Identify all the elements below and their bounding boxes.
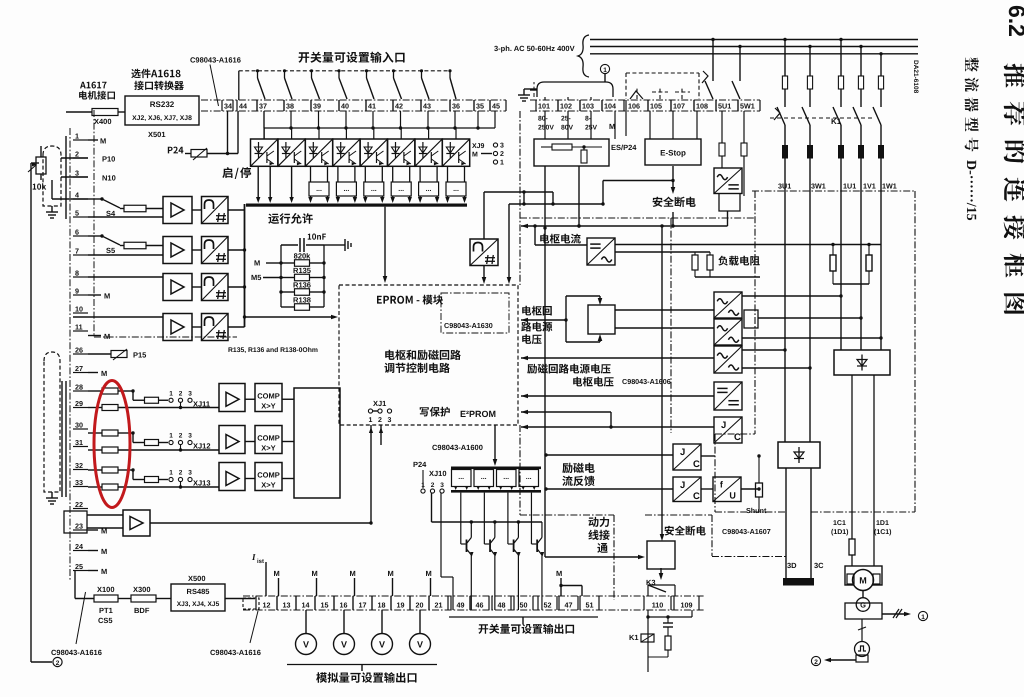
svg-text:37: 37 — [259, 102, 267, 111]
svg-text:PT1: PT1 — [99, 606, 113, 615]
svg-text:6.2: 6.2 — [1004, 5, 1024, 37]
svg-text:2: 2 — [431, 482, 435, 489]
svg-text:1: 1 — [169, 433, 173, 440]
svg-text:10: 10 — [75, 305, 83, 314]
svg-text:101: 101 — [538, 102, 550, 111]
svg-text:M: M — [104, 292, 110, 301]
svg-text:XJ9: XJ9 — [472, 143, 485, 150]
svg-text:5: 5 — [75, 209, 79, 218]
svg-text:19: 19 — [397, 601, 405, 610]
svg-text:1: 1 — [603, 67, 607, 74]
svg-text:C98043-A1616: C98043-A1616 — [51, 648, 102, 657]
svg-text:V: V — [341, 640, 347, 650]
svg-text:27: 27 — [75, 364, 83, 373]
svg-text:E-Stop: E-Stop — [660, 149, 686, 158]
svg-text:3C: 3C — [814, 561, 824, 570]
svg-text:41: 41 — [368, 102, 376, 111]
svg-text:52: 52 — [544, 601, 552, 610]
svg-text:C: C — [734, 432, 741, 443]
svg-text:P15: P15 — [133, 351, 146, 360]
svg-text:S4: S4 — [106, 209, 116, 218]
svg-text:1: 1 — [169, 390, 173, 397]
svg-text:31: 31 — [75, 438, 83, 447]
svg-text:46: 46 — [476, 601, 484, 610]
svg-text:1D1: 1D1 — [876, 520, 889, 527]
svg-text:M5: M5 — [251, 273, 261, 282]
svg-text:C: C — [693, 459, 700, 470]
svg-text:XJ10: XJ10 — [429, 469, 447, 478]
svg-text:24: 24 — [75, 542, 83, 551]
svg-text:I: I — [251, 552, 256, 562]
svg-text:2: 2 — [814, 659, 818, 666]
svg-text:35: 35 — [476, 102, 484, 111]
svg-text:...: ... — [398, 186, 404, 193]
svg-text:28: 28 — [75, 383, 83, 392]
svg-text:X300: X300 — [133, 585, 151, 594]
svg-text:2: 2 — [179, 390, 183, 397]
svg-text:3W1: 3W1 — [811, 182, 826, 191]
svg-text:P10: P10 — [102, 155, 115, 164]
svg-text:XJ2, XJ6, XJ7, XJ8: XJ2, XJ6, XJ7, XJ8 — [132, 115, 192, 122]
svg-text:X>Y: X>Y — [261, 401, 275, 410]
svg-text:ist: ist — [257, 558, 264, 565]
svg-text:M: M — [556, 569, 562, 578]
svg-text:R136: R136 — [293, 281, 311, 290]
svg-text:23: 23 — [75, 522, 83, 531]
svg-text:43: 43 — [423, 102, 431, 111]
svg-text:C: C — [693, 491, 700, 502]
svg-text:...: ... — [343, 186, 349, 193]
svg-text:M: M — [609, 122, 615, 131]
svg-text:M: M — [254, 259, 260, 268]
svg-text:3D: 3D — [787, 561, 797, 570]
svg-text:C98043-A1616: C98043-A1616 — [210, 648, 261, 657]
svg-text:2: 2 — [500, 151, 504, 158]
svg-text:M: M — [859, 576, 867, 586]
svg-text:M: M — [350, 569, 356, 578]
svg-text:820k: 820k — [294, 252, 312, 261]
svg-text:6: 6 — [75, 228, 79, 237]
svg-text:21: 21 — [435, 601, 443, 610]
svg-text:44: 44 — [239, 102, 247, 111]
svg-text:17: 17 — [359, 601, 367, 610]
svg-text:COMP: COMP — [257, 434, 280, 443]
svg-text:M: M — [101, 547, 107, 556]
svg-text:R135, R136 and R138-0Ohm: R135, R136 and R138-0Ohm — [228, 347, 318, 354]
svg-text:8-: 8- — [585, 116, 591, 123]
svg-text:P24: P24 — [413, 460, 427, 469]
svg-text:18: 18 — [378, 601, 386, 610]
svg-text:X501: X501 — [148, 130, 166, 139]
svg-text:80V: 80V — [561, 125, 574, 132]
svg-text:25-: 25- — [561, 116, 571, 123]
svg-text:3: 3 — [500, 143, 504, 150]
svg-text:29: 29 — [75, 399, 83, 408]
svg-text:38: 38 — [286, 102, 294, 111]
svg-text:E²PROM: E²PROM — [460, 409, 496, 419]
svg-text:3-ph. AC 50-60Hz 400V: 3-ph. AC 50-60Hz 400V — [494, 44, 575, 53]
svg-text:C98043-A1630: C98043-A1630 — [444, 321, 493, 330]
svg-text:2: 2 — [179, 433, 183, 440]
svg-text:XJ13: XJ13 — [193, 479, 211, 488]
svg-text:48: 48 — [498, 601, 506, 610]
svg-text:42: 42 — [395, 102, 403, 111]
svg-text:K1: K1 — [629, 633, 639, 642]
svg-text:5W1: 5W1 — [740, 102, 755, 111]
svg-text:26: 26 — [75, 346, 83, 355]
svg-text:J: J — [680, 447, 685, 458]
svg-text:104: 104 — [604, 102, 616, 111]
svg-text:RS485: RS485 — [187, 587, 210, 596]
svg-text:30: 30 — [75, 421, 83, 430]
svg-text:COMP: COMP — [257, 391, 280, 400]
svg-text:5U1: 5U1 — [718, 102, 731, 111]
svg-text:V: V — [303, 640, 309, 650]
svg-text:ES/P24: ES/P24 — [611, 143, 637, 152]
svg-text:14: 14 — [302, 601, 310, 610]
svg-text:22: 22 — [75, 500, 83, 509]
svg-text:3: 3 — [75, 169, 79, 178]
svg-text:34: 34 — [224, 102, 232, 111]
svg-text:...: ... — [316, 186, 322, 193]
svg-text:(1C1): (1C1) — [874, 528, 892, 536]
svg-text:R135: R135 — [293, 266, 311, 275]
svg-text:R138: R138 — [293, 296, 311, 305]
svg-text:XJ1: XJ1 — [373, 399, 386, 408]
svg-text:49: 49 — [457, 601, 465, 610]
svg-text:110: 110 — [652, 601, 664, 610]
svg-text:12: 12 — [263, 601, 271, 610]
svg-text:16: 16 — [340, 601, 348, 610]
svg-text:XJ3, XJ4, XJ5: XJ3, XJ4, XJ5 — [177, 601, 220, 608]
svg-text:X100: X100 — [97, 585, 115, 594]
svg-text:47: 47 — [565, 601, 573, 610]
svg-text:3: 3 — [440, 482, 444, 489]
svg-text:3: 3 — [188, 470, 192, 477]
svg-text:1U1: 1U1 — [843, 182, 856, 191]
svg-text:20: 20 — [416, 601, 424, 610]
svg-text:S5: S5 — [106, 246, 115, 255]
svg-text:X>Y: X>Y — [261, 481, 275, 490]
svg-text:U: U — [729, 490, 736, 500]
svg-text:...: ... — [371, 186, 377, 193]
svg-text:X500: X500 — [188, 574, 206, 583]
svg-text:1C1: 1C1 — [833, 520, 846, 527]
svg-text:40: 40 — [341, 102, 349, 111]
svg-text:...: ... — [526, 474, 532, 481]
svg-text:M: M — [472, 152, 478, 159]
svg-text:1: 1 — [921, 614, 925, 621]
svg-text:7: 7 — [75, 247, 79, 256]
svg-text:C98043-A1606: C98043-A1606 — [622, 377, 671, 386]
svg-text:36: 36 — [452, 102, 460, 111]
svg-text:N10: N10 — [102, 174, 116, 183]
svg-text:11: 11 — [75, 323, 83, 332]
svg-text:...: ... — [458, 474, 464, 481]
svg-text:M: M — [388, 569, 394, 578]
svg-text:3: 3 — [388, 417, 392, 424]
svg-text:1: 1 — [369, 417, 373, 424]
svg-text:D-······/15: D-······/15 — [963, 160, 978, 221]
svg-text:COMP: COMP — [257, 471, 280, 480]
svg-text:M: M — [312, 569, 318, 578]
svg-text:...: ... — [481, 474, 487, 481]
svg-text:105: 105 — [650, 102, 662, 111]
svg-text:G: G — [860, 601, 866, 610]
svg-text:39: 39 — [313, 102, 321, 111]
svg-text:106: 106 — [628, 102, 640, 111]
svg-text:...: ... — [453, 186, 459, 193]
svg-text:2: 2 — [378, 417, 382, 424]
svg-text:9: 9 — [75, 287, 79, 296]
svg-text:C98043-A1607: C98043-A1607 — [722, 527, 771, 536]
svg-text:C98043-A1600: C98043-A1600 — [432, 443, 483, 452]
svg-text:CS5: CS5 — [98, 616, 113, 625]
svg-text:V: V — [417, 640, 423, 650]
svg-text:4: 4 — [75, 191, 79, 200]
svg-text:M: M — [101, 369, 107, 378]
svg-text:V: V — [379, 640, 385, 650]
svg-text:M: M — [100, 137, 106, 146]
svg-text:1: 1 — [500, 160, 504, 167]
svg-text:103: 103 — [582, 102, 594, 111]
svg-text:1: 1 — [75, 132, 79, 141]
svg-text:Shunt: Shunt — [746, 506, 767, 515]
svg-text:107: 107 — [673, 102, 685, 111]
svg-text:51: 51 — [586, 601, 594, 610]
svg-text:3: 3 — [188, 390, 192, 397]
svg-text:2: 2 — [179, 470, 183, 477]
svg-text:108: 108 — [696, 102, 708, 111]
svg-text:3: 3 — [188, 433, 192, 440]
svg-text:1: 1 — [169, 470, 173, 477]
svg-text:J: J — [680, 480, 685, 491]
svg-text:M: M — [426, 569, 432, 578]
svg-text:33: 33 — [75, 478, 83, 487]
svg-text:X>Y: X>Y — [261, 444, 275, 453]
svg-text:45: 45 — [492, 102, 500, 111]
svg-text:M: M — [101, 567, 107, 576]
svg-text:50: 50 — [520, 601, 528, 610]
svg-text:102: 102 — [560, 102, 572, 111]
svg-text:M: M — [274, 569, 280, 578]
svg-text:X400: X400 — [94, 117, 112, 126]
svg-text:25: 25 — [75, 562, 83, 571]
svg-text:13: 13 — [283, 601, 291, 610]
svg-text:250V: 250V — [538, 125, 554, 132]
svg-text:109: 109 — [681, 601, 693, 610]
svg-text:J: J — [721, 420, 726, 431]
svg-text:...: ... — [426, 186, 432, 193]
svg-text:XJ12: XJ12 — [193, 442, 211, 451]
svg-text:2: 2 — [56, 660, 60, 667]
svg-text:(1D1): (1D1) — [831, 528, 849, 536]
svg-text:C98043-A1616: C98043-A1616 — [190, 56, 241, 65]
svg-text:2: 2 — [75, 150, 79, 159]
svg-text:15: 15 — [321, 601, 329, 610]
svg-text:80-: 80- — [538, 116, 548, 123]
svg-text:32: 32 — [75, 461, 83, 470]
svg-text:DA21-6108: DA21-6108 — [912, 60, 919, 94]
svg-text:...: ... — [503, 474, 509, 481]
svg-text:1W1: 1W1 — [882, 182, 897, 191]
svg-text:BDF: BDF — [134, 606, 150, 615]
svg-text:8: 8 — [75, 269, 79, 278]
svg-text:1V1: 1V1 — [863, 182, 876, 191]
svg-text:RS232: RS232 — [150, 100, 175, 109]
